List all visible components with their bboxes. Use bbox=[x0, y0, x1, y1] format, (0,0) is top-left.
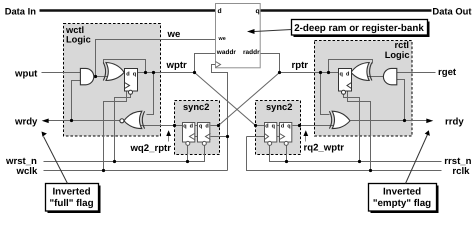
AND gate wctl (wput & wrdy) bbox=[80, 68, 93, 84]
wire rptr bbox=[280, 72, 339, 74]
wire XOR-L out to DFF-L bbox=[123, 72, 126, 74]
wire wrdy bbox=[46, 120, 120, 122]
wire AND-R out to XOR-R bbox=[363, 76, 384, 78]
svg-text:waddr: waddr bbox=[216, 49, 237, 56]
junction wrst_n to wptr DFF reset bbox=[113, 160, 116, 163]
svg-text:q: q bbox=[287, 124, 290, 130]
svg-text:"empty" flag: "empty" flag bbox=[373, 198, 431, 209]
wire rptr feedback to XOR-R top bbox=[329, 60, 373, 73]
svg-text:wctl: wctl bbox=[65, 25, 84, 35]
junction rptr/raddr/diagonal bbox=[278, 71, 281, 74]
junction rq2_wptr at sync2-R edge bbox=[298, 124, 301, 127]
XOR gate rctl (left-facing) bbox=[351, 63, 372, 81]
XNOR gate wrdy inverted-full flag (left-facing, bubble) bbox=[120, 111, 145, 128]
wire wq2_rptr from sync2-L to XNOR-L bbox=[141, 125, 183, 127]
wire sync2-L input bbox=[211, 125, 220, 127]
wire wclk rail bbox=[44, 170, 228, 172]
svg-text:sync2: sync2 bbox=[266, 102, 292, 112]
XOR gate wctl bbox=[103, 63, 124, 81]
svg-text:q: q bbox=[133, 72, 137, 78]
svg-text:Logic: Logic bbox=[66, 35, 91, 45]
wq2_rptr pointer arrow bbox=[166, 130, 171, 141]
svg-text:rrdy: rrdy bbox=[445, 116, 464, 127]
svg-text:Inverted: Inverted bbox=[52, 187, 90, 198]
sync2-L flip-flop FF1 (output stage) bbox=[183, 123, 195, 146]
wire diagonal rptr to left sync2 bbox=[219, 73, 280, 126]
junction rrdy feedback tap bbox=[403, 119, 406, 122]
sync2-R flip-flop FF1 (input stage) bbox=[265, 123, 277, 146]
wire rget bbox=[397, 72, 436, 74]
wire rrdy bbox=[351, 120, 430, 122]
wire DFF-R reset path bbox=[344, 95, 360, 162]
svg-text:q: q bbox=[183, 124, 186, 130]
rq2_wptr pointer arrow bbox=[303, 130, 308, 141]
XOR gate rrdy inverted-empty flag (right-facing) bbox=[329, 111, 350, 128]
svg-text:wput: wput bbox=[14, 69, 38, 80]
svg-text:Inverted: Inverted bbox=[383, 187, 421, 198]
svg-text:raddr: raddr bbox=[243, 49, 260, 56]
junction rptr diagonal at sync2-L edge bbox=[217, 124, 220, 127]
svg-text:we: we bbox=[167, 29, 181, 40]
svg-text:wclk: wclk bbox=[16, 166, 38, 177]
wire wrdy feedback to AND-L bbox=[72, 81, 81, 121]
wire wptr bbox=[138, 72, 195, 74]
wire sync2-L FF link bbox=[195, 125, 198, 127]
svg-text:q: q bbox=[256, 8, 260, 15]
svg-text:q: q bbox=[199, 124, 202, 130]
Data In thick wire bbox=[40, 9, 216, 12]
D flip-flop wptr register bbox=[125, 69, 138, 95]
junction wrst_n to sync2-L FF1 reset bbox=[186, 160, 189, 163]
junction rrst_n to sync2-R FF2 reset bbox=[285, 160, 288, 163]
sync2-R flip-flop FF2 (output stage) bbox=[280, 123, 292, 146]
arrowhead rrdy (right) bbox=[426, 119, 433, 124]
junction rclk to rptr DFF clock bbox=[369, 169, 372, 172]
svg-text:we: we bbox=[218, 36, 226, 42]
wire rptr drop to XOR-btm top input bbox=[321, 73, 330, 115]
junction rptr feedback tap bbox=[327, 71, 330, 74]
svg-text:2-deep ram or register-bank: 2-deep ram or register-bank bbox=[294, 23, 424, 34]
callout: Inverted "full" flag bbox=[42, 132, 101, 214]
2-deep RAM block bbox=[216, 4, 261, 68]
sync2 left dashed box bbox=[175, 101, 220, 155]
junction wptr diagonal at sync2-R edge bbox=[254, 124, 257, 127]
wire DFF-L clock path bbox=[104, 91, 127, 171]
junction we tap at AND-L output bbox=[94, 75, 97, 78]
svg-text:rctl: rctl bbox=[395, 40, 409, 50]
junction wptr feedback tap bbox=[144, 71, 147, 74]
wire rrst_n rail bbox=[270, 146, 442, 162]
svg-text:q: q bbox=[340, 72, 344, 78]
svg-text:wrdy: wrdy bbox=[14, 116, 38, 127]
wire DFF-R clock path bbox=[348, 91, 371, 171]
junction wclk to wptr DFF clock bbox=[102, 169, 105, 172]
junction rrst_n to rptr DFF reset bbox=[358, 160, 361, 163]
junction wclk riser / sync2-L clock bbox=[226, 135, 229, 138]
wire wclk riser to RAM clock bbox=[212, 65, 228, 171]
junction wptr to XNOR tap bbox=[152, 71, 155, 74]
svg-text:wq2_rptr: wq2_rptr bbox=[129, 143, 171, 154]
arrowhead wrdy (left) bbox=[42, 119, 49, 124]
svg-text:q: q bbox=[272, 124, 275, 130]
junction wq2_rptr at sync2-L edge bbox=[173, 124, 176, 127]
callout: Inverted "empty" flag bbox=[369, 130, 439, 213]
svg-text:sync2: sync2 bbox=[183, 102, 209, 112]
svg-text:wptr: wptr bbox=[166, 60, 188, 71]
RAM clock wedge bbox=[216, 62, 221, 68]
junction wptr/waddr/diagonal bbox=[193, 71, 196, 74]
wire sync2-R input bbox=[256, 125, 265, 127]
wire wptr drop to XNOR-L top input bbox=[147, 73, 154, 115]
svg-text:rptr: rptr bbox=[292, 60, 309, 71]
Data Out thick wire bbox=[261, 9, 432, 12]
callout: 2-deep ram or register-bank bbox=[247, 20, 430, 38]
svg-text:rget: rget bbox=[438, 67, 457, 78]
wire rq2_wptr from sync2-R to XOR-btm bbox=[293, 125, 335, 127]
svg-text:Data Out: Data Out bbox=[432, 6, 471, 17]
wire we vertical+horizontal bbox=[96, 40, 216, 77]
svg-text:rclk: rclk bbox=[452, 166, 470, 177]
svg-text:Logic: Logic bbox=[385, 50, 410, 60]
wire rrdy feedback to AND-R bbox=[397, 80, 405, 121]
D flip-flop rptr (mirrored) bbox=[339, 69, 352, 95]
wire wptr feedback to XOR-L top bbox=[104, 60, 146, 73]
wire AND-L out to XOR-L bbox=[94, 76, 113, 78]
wire FF-R2 reset drop bbox=[286, 146, 288, 162]
svg-text:d: d bbox=[265, 124, 268, 130]
svg-text:d: d bbox=[281, 124, 284, 130]
AND gate rctl (rget & rrdy, left-facing) bbox=[383, 68, 396, 84]
junction rptr to XOR-empty tap bbox=[319, 71, 322, 74]
svg-text:d: d bbox=[218, 8, 222, 15]
wctl Logic dashed box bbox=[64, 24, 161, 137]
sync2 right dashed box bbox=[256, 101, 301, 155]
wire sync2-R FF link bbox=[277, 125, 280, 127]
wire wptr to waddr bbox=[195, 54, 216, 73]
wire sync2-R clock segments bbox=[277, 136, 280, 138]
svg-text:d: d bbox=[346, 71, 350, 78]
wire diagonal wptr to right sync2 bbox=[195, 73, 256, 126]
svg-text:d: d bbox=[205, 124, 208, 130]
svg-text:"full" flag: "full" flag bbox=[49, 198, 93, 209]
rctl Logic dashed box bbox=[315, 41, 413, 137]
wire FF-L1 reset drop bbox=[187, 146, 189, 162]
wire XOR-R out to DFF-R bbox=[351, 72, 354, 74]
wire wrst_n rail bbox=[44, 146, 205, 162]
svg-text:d: d bbox=[126, 71, 130, 78]
wire wput bbox=[42, 72, 81, 74]
wire rptr to raddr bbox=[261, 54, 280, 73]
wire rclk rail bbox=[247, 137, 442, 171]
svg-text:Data In: Data In bbox=[5, 6, 37, 17]
wire sync2-L clock segments bbox=[195, 136, 198, 138]
svg-text:rq2_wptr: rq2_wptr bbox=[304, 143, 345, 154]
sync2-L flip-flop FF2 (input stage) bbox=[198, 123, 211, 146]
junction wrdy feedback tap bbox=[70, 119, 73, 122]
svg-text:d: d bbox=[190, 124, 193, 130]
wire DFF-L reset path bbox=[115, 95, 131, 162]
